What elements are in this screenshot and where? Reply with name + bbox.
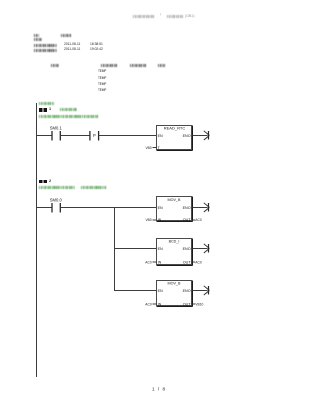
svg-text:IN: IN bbox=[158, 302, 162, 306]
svg-text:READ_RTC: READ_RTC bbox=[164, 125, 186, 130]
box MOV_B (second) bbox=[157, 281, 193, 307]
open arrow output (network 1) bbox=[204, 131, 210, 140]
svg-text:ENO: ENO bbox=[183, 289, 191, 293]
box MOV_B (first) bbox=[157, 197, 193, 223]
svg-text:AC0: AC0 bbox=[145, 302, 152, 306]
open arrow output (BCD_I) bbox=[204, 244, 210, 253]
open arrow output (MOV_B 1) bbox=[204, 203, 210, 212]
svg-text:EN: EN bbox=[158, 247, 163, 251]
svg-text:BCD_I: BCD_I bbox=[169, 240, 180, 244]
page number bbox=[152, 387, 166, 392]
network 2 header 网络 2 bbox=[39, 180, 47, 184]
branch wire to MOV_B 2 bbox=[114, 290, 157, 292]
svg-text:EN: EN bbox=[158, 206, 163, 210]
program comment (green) bbox=[39, 102, 54, 105]
svg-text:OUT: OUT bbox=[183, 218, 192, 222]
wire: rail to contact SM0.1 bbox=[36, 135, 52, 137]
branch wire to BCD_I bbox=[114, 248, 157, 250]
open arrow output (MOV_B 2) bbox=[204, 286, 210, 295]
svg-text:IN: IN bbox=[158, 218, 162, 222]
box BCD_I bbox=[157, 239, 193, 266]
operand VB10 at MOV_B2 OUT bbox=[193, 302, 204, 306]
svg-text:EN: EN bbox=[158, 289, 163, 293]
wire: contact P to READ_RTC box bbox=[99, 135, 157, 137]
svg-text:MOV_B: MOV_B bbox=[168, 282, 181, 286]
contact SM0.0 bbox=[52, 203, 60, 213]
block info: 作者: bbox=[34, 38, 42, 41]
operand AC0 at BCD_I OUT bbox=[193, 260, 202, 264]
wire: MOV_B2 ENO to arrow bbox=[193, 290, 208, 292]
wire: READ_RTC ENO to arrow bbox=[193, 135, 208, 137]
box READ_RTC bbox=[157, 125, 193, 150]
svg-text:VB10: VB10 bbox=[195, 302, 203, 306]
operand AC0 at MOV_B2 IN bbox=[145, 302, 156, 306]
block info: 创建时间 bbox=[34, 44, 57, 47]
wire: MOV_B ENO to arrow bbox=[193, 207, 208, 209]
svg-text:MOV_B: MOV_B bbox=[168, 198, 181, 202]
wire: contact SM0.1 to edge contact P bbox=[60, 135, 90, 137]
var table header: 符号 变量类型 数据类型 注释 bbox=[51, 64, 59, 67]
svg-text:ENO: ENO bbox=[183, 247, 191, 251]
block info: 块: 主程序 bbox=[34, 34, 39, 37]
svg-text:ENO: ENO bbox=[183, 134, 191, 138]
wire: rail to contact SM0.0 bbox=[36, 207, 52, 209]
wire: BCD_I ENO to arrow bbox=[193, 248, 208, 250]
svg-text:SM0.0: SM0.0 bbox=[50, 197, 63, 202]
svg-text:ENO: ENO bbox=[183, 206, 191, 210]
network 1 title (green) bbox=[60, 108, 78, 111]
operand VB0 at MOV_B IN bbox=[145, 218, 156, 222]
operand VB0 at T pin bbox=[145, 146, 156, 150]
svg-text:VB0: VB0 bbox=[145, 218, 151, 222]
page header title (时钟控制程序 / 主程序 (OB1)) bbox=[133, 15, 155, 18]
left power rail bbox=[36, 103, 38, 377]
edge contact P (rising edge) bbox=[90, 131, 99, 141]
wire: contact SM0.0 to MOV_B box bbox=[60, 207, 156, 209]
operand AC0 at BCD_I IN bbox=[145, 260, 156, 264]
svg-text:AC0: AC0 bbox=[145, 260, 152, 264]
svg-text:OUT: OUT bbox=[183, 302, 192, 306]
branch vertical wire bbox=[114, 207, 116, 291]
svg-text:P: P bbox=[93, 133, 96, 138]
contact SM0.1 bbox=[52, 131, 60, 141]
network 1 comment (green) bbox=[39, 115, 98, 118]
TEMP rows bbox=[98, 70, 106, 73]
svg-text:AC0: AC0 bbox=[195, 218, 202, 222]
svg-text:IN: IN bbox=[158, 260, 162, 264]
svg-text:EN: EN bbox=[158, 134, 163, 138]
svg-text:SM0.1: SM0.1 bbox=[50, 125, 63, 130]
block info: 修改时间 bbox=[34, 49, 57, 52]
svg-text:OUT: OUT bbox=[183, 260, 192, 264]
svg-text:VB0: VB0 bbox=[145, 146, 151, 150]
network 1 header 网络 1 bbox=[39, 108, 47, 112]
svg-text:AC0: AC0 bbox=[195, 260, 202, 264]
network 2 comment (green) bbox=[39, 186, 75, 189]
operand AC0 at MOV_B OUT bbox=[193, 218, 202, 222]
